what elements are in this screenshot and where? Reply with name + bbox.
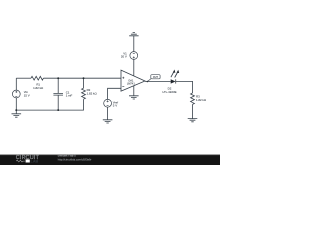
wire R3 bottom bbox=[192, 104, 194, 118]
svg-text:20 V: 20 V bbox=[121, 55, 127, 59]
node flag OUT bbox=[147, 75, 160, 82]
wire op-amp V+ bbox=[133, 59, 135, 75]
ground (Vin) bbox=[12, 114, 22, 117]
svg-text:OUT: OUT bbox=[153, 76, 159, 79]
ground (R3) bbox=[188, 119, 198, 122]
logo CIRCUIT bbox=[16, 155, 40, 164]
svg-text:5 V: 5 V bbox=[113, 104, 117, 108]
svg-text:1 mF: 1 mF bbox=[66, 94, 73, 98]
svg-text:1.82 kΩ: 1.82 kΩ bbox=[87, 92, 98, 96]
source Vref bbox=[104, 99, 112, 107]
ground (Vref) bbox=[103, 120, 113, 123]
ground flag up (V1) bbox=[129, 33, 138, 36]
op-amp OA1 bbox=[121, 70, 145, 91]
wire C1 bottom bbox=[57, 95, 59, 110]
svg-text:cmruark / lab 5: cmruark / lab 5 bbox=[58, 154, 76, 158]
svg-text:1.82 kΩ: 1.82 kΩ bbox=[196, 98, 207, 102]
wire R2 top bbox=[83, 78, 85, 88]
wire Vin bottom bbox=[15, 98, 17, 114]
svg-text:1.82 kΩ: 1.82 kΩ bbox=[33, 86, 44, 90]
resistor R1 bbox=[31, 76, 43, 80]
wire top rail left bbox=[16, 77, 31, 79]
footer text bbox=[58, 154, 92, 162]
svg-text:LTL-4223E: LTL-4223E bbox=[162, 90, 176, 94]
wire V1 top bbox=[133, 36, 135, 52]
wire Vref bottom bbox=[107, 107, 109, 120]
wire op-amp output bbox=[145, 80, 171, 82]
wire C1 top bbox=[57, 78, 59, 93]
wire Vin top bbox=[15, 78, 17, 90]
wire bottom rail bbox=[16, 99, 83, 110]
junction R2 top bbox=[83, 77, 85, 79]
LED D2 body bbox=[171, 70, 180, 84]
wire op-amp inverting input bbox=[108, 88, 121, 99]
svg-text:LM741: LM741 bbox=[127, 82, 135, 86]
wire top rail right bbox=[43, 77, 121, 79]
svg-text:LAB: LAB bbox=[31, 160, 39, 164]
wire op-amp V- bbox=[133, 86, 135, 96]
wire LED cathode to corner bbox=[176, 81, 193, 93]
resistor R2 bbox=[82, 88, 86, 99]
capacitor C1 bbox=[53, 93, 63, 95]
junction C1 top bbox=[57, 77, 59, 79]
svg-text:15 V: 15 V bbox=[24, 94, 30, 98]
source Vin bbox=[12, 90, 20, 98]
LED D2 arrows bbox=[171, 72, 178, 77]
resistor R3 bbox=[191, 93, 195, 104]
labels bbox=[24, 51, 207, 107]
svg-text:http://circuitlab.com/c933e9r: http://circuitlab.com/c933e9r bbox=[58, 157, 92, 161]
source V1 bbox=[130, 52, 138, 60]
junction C1 bottom bbox=[57, 109, 59, 111]
ground (op-amp) bbox=[129, 96, 139, 99]
junction Vin ground bbox=[15, 109, 17, 111]
junction node OUT bbox=[147, 81, 149, 83]
